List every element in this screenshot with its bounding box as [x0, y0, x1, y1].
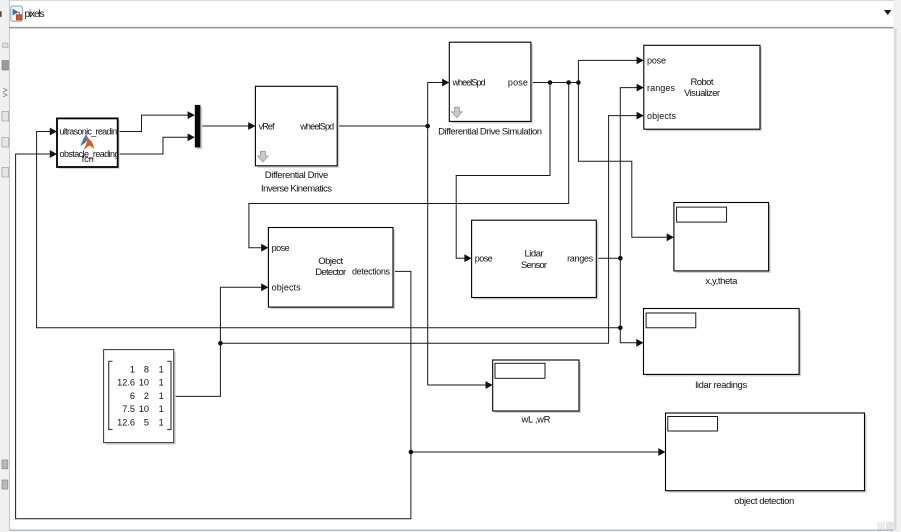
arrow into fcn obstacle [50, 150, 57, 158]
svg-text:6: 6 [130, 391, 135, 401]
wire ranges feedback to fcn ultrasonic input [37, 132, 621, 328]
svg-text:1: 1 [159, 404, 164, 414]
block Object Detector [268, 228, 395, 310]
wire objects branch to robot visualizer objects [220, 116, 637, 344]
tab dropdown arrow [884, 10, 892, 15]
wire ranges out to junction [596, 257, 620, 259]
svg-text:12.6: 12.6 [117, 378, 135, 388]
strip icon 3 [2, 112, 9, 122]
svg-text:Sensor: Sensor [521, 260, 547, 271]
wire pose branch to x,y,theta display [578, 83, 667, 238]
svg-text:fcn: fcn [82, 154, 94, 164]
strip icon 4 [2, 138, 9, 148]
svg-text:Lidar: Lidar [525, 248, 544, 259]
bottom scroll corner marks [877, 522, 885, 530]
junction dot pose 2 [566, 80, 571, 85]
arrow into RV pose [637, 57, 644, 65]
block Lidar Sensor [472, 220, 599, 299]
svg-text:ultrasonic_reading: ultrasonic_reading [60, 127, 122, 137]
svg-text:10: 10 [139, 404, 149, 414]
right bracket [167, 361, 171, 429]
svg-text:ranges: ranges [567, 253, 594, 263]
mux [195, 105, 201, 148]
junction dot wheelSpd [425, 124, 430, 129]
junction dot detections [409, 450, 414, 455]
svg-text:pose: pose [508, 78, 528, 88]
wire pose branch to object detector [249, 83, 569, 248]
MATLAB logo [80, 134, 94, 150]
wire detections feedback to fcn obstacle input [16, 154, 411, 519]
canvas bottom border [10, 529, 894, 531]
strip icon 5 [2, 168, 9, 178]
junction dot objects [218, 341, 223, 346]
strip collapse notch [0, 11, 2, 17]
svg-text:pose: pose [475, 253, 493, 263]
wire wheelSpd IK to junction to sim input [337, 83, 442, 127]
svg-text:7.5: 7.5 [122, 404, 135, 414]
svg-text:pose: pose [647, 56, 666, 66]
block Differential Drive Inverse Kinematics [255, 86, 339, 194]
arrowheads [50, 57, 674, 456]
strip icon 2 [2, 61, 9, 71]
constant block objects matrix [104, 350, 176, 445]
arrow into fcn ultrasonic [50, 128, 57, 136]
junction dot ranges [618, 256, 623, 261]
svg-text:lidar readings: lidar readings [695, 380, 747, 391]
svg-text:object detection: object detection [734, 496, 794, 507]
arrow into x,y,theta [667, 233, 674, 241]
svg-text:8: 8 [144, 364, 149, 374]
block Robot Visualizer [644, 45, 762, 131]
left tool strip [0, 0, 10, 532]
svg-text:objects: objects [272, 283, 302, 293]
arrow into vRef [248, 122, 255, 130]
wire fcn ultrasonic out to mux top [118, 115, 188, 131]
right scrollbar column [894, 0, 901, 532]
svg-text:1: 1 [159, 378, 164, 388]
junction dot pose 1 [548, 80, 553, 85]
junction dot pose 3 [576, 80, 581, 85]
wire mux out to vRef [200, 125, 248, 127]
arrow into wL,wR [486, 381, 493, 389]
arrow into lidar pose [464, 254, 471, 262]
arrow into wheelSpd sim [442, 79, 449, 87]
strip icon dots [3, 43, 9, 48]
wire objects constant to object detector [174, 287, 262, 396]
svg-text:wL ,wR: wL ,wR [521, 415, 551, 426]
strip icon 6 [2, 460, 8, 469]
left bracket [109, 361, 113, 429]
arrow into lidar readings [636, 339, 643, 347]
svg-text:Visualizer: Visualizer [684, 88, 720, 99]
svg-text:pixels: pixels [25, 9, 45, 20]
wire fcn obstacle out to mux bottom [118, 137, 188, 154]
svg-text:12.6: 12.6 [117, 418, 135, 428]
svg-text:1: 1 [159, 418, 164, 428]
svg-text:detections: detections [352, 267, 391, 277]
svg-text:5: 5 [144, 418, 149, 428]
svg-text:wheelSpd: wheelSpd [299, 121, 334, 131]
tab model icon [11, 6, 22, 21]
svg-text:2: 2 [144, 391, 149, 401]
variant badge arrow [452, 107, 463, 118]
tab bar [10, 0, 894, 27]
wire ranges junction down to lidar readings display [620, 258, 636, 343]
svg-text:Differential Drive: Differential Drive [265, 170, 329, 181]
wire pose out main run [531, 82, 579, 84]
svg-text:1: 1 [159, 364, 164, 374]
svg-text:wheelSpd: wheelSpd [452, 78, 486, 88]
arrow into mux top [188, 111, 195, 119]
block Differential Drive Simulation [438, 42, 542, 137]
svg-text:Object: Object [318, 256, 343, 267]
svg-text:ranges: ranges [647, 83, 676, 93]
MATLAB function block fcn [57, 118, 122, 169]
svg-text:Inverse Kinematics: Inverse Kinematics [261, 184, 332, 195]
svg-text:vRef: vRef [259, 121, 275, 131]
svg-text:1: 1 [159, 391, 164, 401]
variant badge arrow [258, 151, 269, 162]
svg-text:1: 1 [130, 364, 135, 374]
svg-text:x,y,theta: x,y,theta [705, 276, 738, 287]
wire pose branch to lidar sensor [456, 83, 550, 259]
wire ranges junction up to robot visualizer ranges [620, 88, 637, 259]
svg-text:Differential Drive Simulation: Differential Drive Simulation [438, 127, 542, 138]
mux shadow [197, 107, 203, 150]
display lidar readings [644, 309, 802, 391]
svg-text:Robot: Robot [691, 77, 714, 88]
svg-text:objects: objects [647, 111, 677, 121]
arrow into mux bottom [188, 133, 195, 141]
wire junction down to wL,wR [428, 126, 486, 385]
arrow into OD pose [261, 244, 268, 252]
arrow into OD objects [261, 283, 268, 291]
arrow into RV objects [637, 112, 644, 120]
svg-text:pose: pose [272, 243, 290, 253]
strip chevrons [3, 88, 7, 97]
junction dot ranges feedback [618, 326, 623, 331]
wire pose branch up to robot visualizer pose [578, 60, 637, 82]
arrow into RV ranges [637, 84, 644, 92]
wire detections branch to object detection display [411, 451, 659, 453]
svg-text:Detector: Detector [315, 267, 346, 278]
svg-text:10: 10 [139, 378, 149, 388]
display x,y,theta [674, 203, 771, 288]
display object detection [666, 413, 867, 507]
display wL ,wR [493, 360, 581, 426]
strip icon 7 [2, 480, 8, 489]
arrow into object detection [658, 448, 665, 456]
